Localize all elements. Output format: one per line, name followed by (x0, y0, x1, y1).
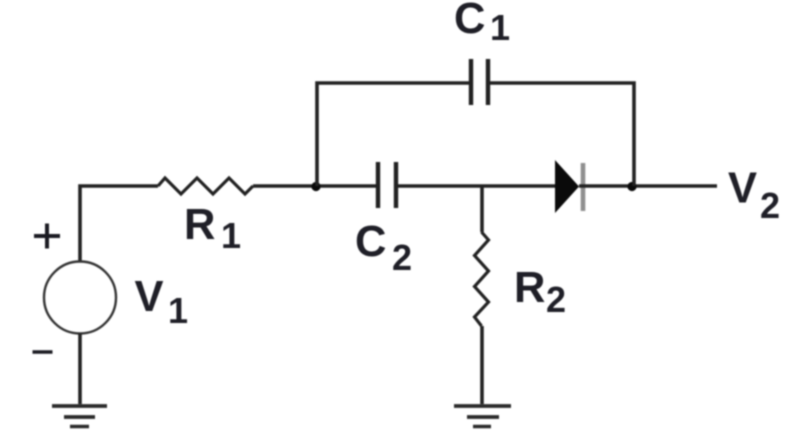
capacitor C1 (471, 59, 488, 105)
ground under V1 (52, 406, 107, 427)
label C1 (454, 0, 510, 48)
plus polarity mark (34, 224, 60, 249)
resistor R2 (475, 232, 489, 326)
capacitor C2 (378, 162, 396, 208)
ground under R2 (454, 406, 511, 427)
resistor R1 (158, 178, 253, 194)
svg-text:1: 1 (221, 215, 241, 256)
svg-text:V: V (135, 273, 164, 321)
svg-text:V: V (728, 165, 757, 213)
svg-text:2: 2 (546, 279, 566, 320)
wire: R1 to C2 (253, 184, 378, 188)
diode D1 (555, 160, 583, 213)
voltage source V1 circle (44, 262, 116, 334)
svg-text:2: 2 (760, 185, 780, 226)
wire: junction down to R2 (480, 186, 484, 232)
wire: top branch left (node up to C1) (317, 83, 471, 186)
wire: V1 bottom to ground (78, 334, 82, 405)
svg-text:R: R (184, 201, 215, 249)
label R2 (514, 264, 566, 320)
node junction at diode/C1 output (627, 182, 636, 191)
svg-text:2: 2 (392, 237, 412, 278)
label R1 (184, 201, 241, 256)
minus polarity mark (33, 350, 53, 354)
wire: top branch right (C1 down to output node) (488, 83, 634, 186)
wire: C2 to diode (through R2 junction) (396, 184, 555, 188)
wire input: V1 top up and right to R1 (80, 186, 158, 262)
svg-text:C: C (355, 218, 386, 266)
svg-text:R: R (514, 264, 545, 312)
wire: R2 to ground (480, 326, 484, 404)
node junction at R1/C1/C2 (311, 182, 320, 191)
wire: diode to output V2 (579, 184, 717, 188)
svg-text:1: 1 (168, 290, 188, 331)
label V1 (135, 273, 189, 331)
label V2 (728, 165, 780, 227)
svg-text:C: C (454, 0, 485, 43)
svg-text:1: 1 (490, 7, 510, 48)
label C2 (355, 218, 412, 278)
